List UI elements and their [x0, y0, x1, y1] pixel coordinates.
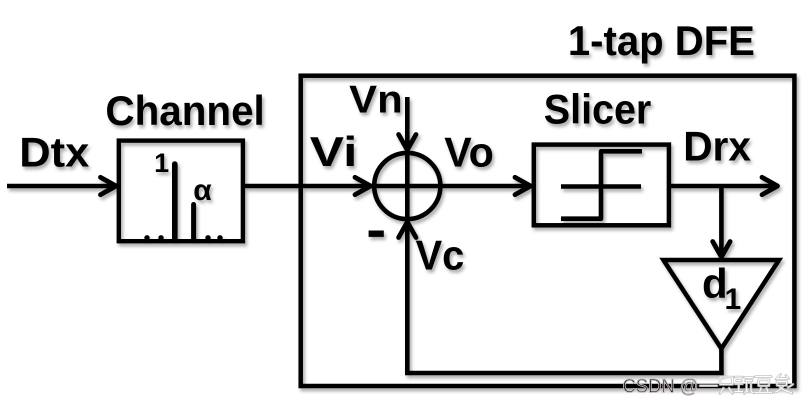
wire: channel output through summer to slicer (Vi / Vo) [243, 184, 528, 189]
watermark CJK hand-drawn strokes (outline pass) [700, 375, 793, 394]
arrowhead Vn into summer [399, 135, 416, 151]
svg-text:Dtx: Dtx [19, 129, 90, 176]
slicer U2 box [534, 145, 669, 226]
wire: Drx branch down to feedback tap [719, 186, 724, 253]
minus sign at summer [369, 231, 384, 237]
wire: triangle output down [719, 349, 724, 375]
svg-text:α: α [193, 174, 212, 207]
channel impulse h1 spike [191, 205, 196, 240]
arrowhead into slicer [515, 177, 531, 194]
svg-text:Drx: Drx [683, 122, 751, 169]
svg-text:Vo: Vo [444, 128, 494, 175]
svg-text:1: 1 [154, 148, 169, 178]
summing junction U1 [374, 153, 440, 219]
svg-text:CSDN @: CSDN @ [623, 376, 699, 398]
wire: slicer to Drx output [669, 184, 774, 189]
arrowhead into summer [355, 177, 371, 194]
channel impulse h0 spike [172, 164, 178, 240]
svg-text:Slicer: Slicer [544, 86, 652, 133]
watermark CSDN [623, 375, 794, 398]
arrowhead Drx output [762, 177, 778, 194]
svg-text:1: 1 [724, 283, 741, 316]
slicer transfer curve step [561, 151, 642, 218]
svg-text:1-tap DFE: 1-tap DFE [568, 17, 755, 64]
channel tap dot 2 [158, 235, 163, 240]
wire: Dtx input [7, 184, 113, 189]
wire: Vn noise input and Vc feedback vertical line [405, 97, 410, 375]
channel tap dot 4 [217, 235, 222, 240]
svg-text:Channel: Channel [105, 87, 264, 134]
svg-text:Vi: Vi [310, 128, 358, 175]
arrowhead into feedback tap [713, 242, 730, 258]
arrowhead Vc into summer [399, 222, 416, 238]
svg-text:Vn: Vn [349, 78, 403, 121]
wire: feedback bottom rail [405, 371, 724, 376]
feedback gain amplifier d1 triangle [663, 260, 779, 349]
svg-text:Vc: Vc [416, 232, 465, 279]
slicer threshold axis [561, 184, 641, 189]
watermark CJK hand-drawn strokes (white core pass) [700, 375, 793, 394]
1-tap DFE enclosure box [301, 76, 795, 386]
channel tap dot 1 [144, 235, 149, 240]
channel tap dot 3 [205, 235, 210, 240]
channel block C1 box [119, 141, 243, 242]
